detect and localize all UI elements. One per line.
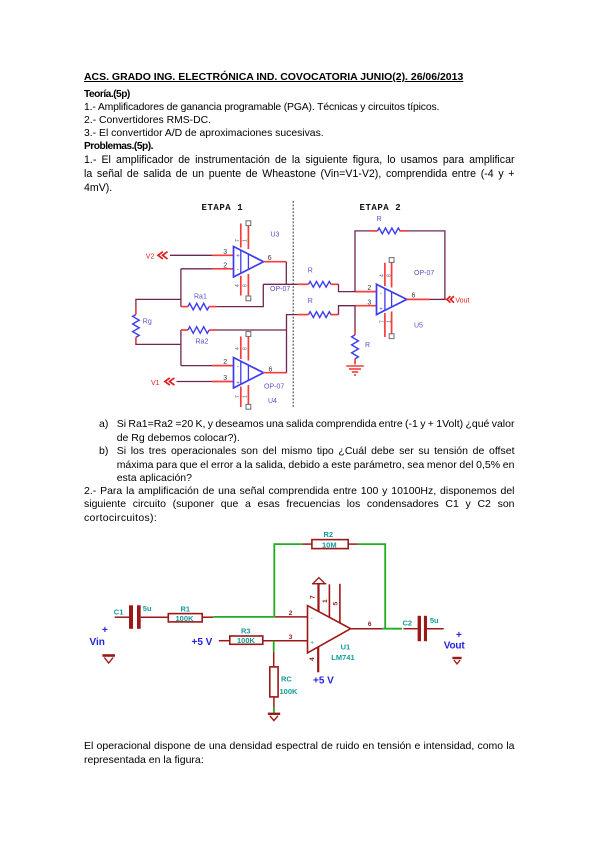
wire U3 output	[264, 261, 287, 263]
svg-text:LM741: LM741	[331, 653, 354, 662]
wire U5 pin3 down to grounded R	[354, 306, 356, 335]
node V2	[146, 252, 168, 261]
label R1	[181, 604, 191, 613]
offset null pin 1 stub U1	[328, 584, 330, 618]
label R stage2 bottom	[308, 298, 313, 305]
svg-text:+5 V: +5 V	[313, 675, 334, 686]
pin 4 label U1	[309, 657, 316, 661]
svg-text:1: 1	[243, 239, 249, 242]
resistor R stage2 top	[309, 281, 339, 287]
resistor RC	[270, 667, 278, 697]
value LM741	[331, 653, 354, 662]
pin 2 label U4	[223, 359, 227, 366]
label Ra1	[194, 293, 207, 300]
label R feedback	[377, 216, 382, 223]
resistor R stage2 bottom	[309, 312, 339, 318]
resistor R grounded	[352, 335, 359, 365]
svg-text:7: 7	[310, 595, 317, 599]
wire node to Rc (green stub)	[273, 641, 275, 652]
wire output green segment	[382, 628, 402, 630]
svg-text:+: +	[310, 639, 314, 646]
node Vout	[447, 296, 469, 305]
svg-text:Rg: Rg	[143, 319, 152, 326]
op-amp U4	[234, 358, 264, 389]
svg-text:3: 3	[223, 249, 227, 256]
svg-text:4: 4	[309, 657, 316, 661]
svg-text:100K: 100K	[237, 636, 256, 645]
wire Rc to ground	[273, 697, 275, 713]
svg-text:1: 1	[386, 320, 392, 323]
wire branch to Rg top	[136, 299, 181, 314]
wire node row to stage2 top R	[263, 283, 308, 285]
svg-text:3: 3	[289, 634, 293, 641]
op-amp U1	[308, 606, 351, 653]
no-connect square top U4	[246, 332, 251, 337]
label R grounded	[365, 342, 370, 349]
value OP-07 of U5	[414, 270, 434, 277]
wire U5 output	[407, 298, 447, 300]
op-amp U3 power pins	[241, 224, 249, 296]
node V1	[151, 378, 174, 387]
resistor R1	[168, 614, 213, 623]
pin 8 label U4	[243, 347, 249, 350]
value OP-07 of U3	[270, 286, 290, 293]
op-amp U4 power pins	[241, 337, 249, 408]
theory heading	[84, 89, 130, 100]
value OP-07 of U4	[264, 384, 284, 391]
pin 1 label U1	[322, 599, 329, 603]
no-connect square top U5	[389, 258, 394, 263]
svg-text:10M: 10M	[322, 540, 337, 549]
value 100K of RC	[280, 687, 299, 696]
wire V1 to U4 pin3	[177, 381, 234, 383]
svg-text:100K: 100K	[176, 614, 195, 623]
pin 4 label U3	[235, 284, 241, 287]
svg-text:OP-07: OP-07	[414, 270, 434, 277]
svg-text:2: 2	[289, 610, 293, 617]
stage separator dashed line	[292, 201, 294, 407]
wire U4 pin2	[181, 365, 234, 367]
wire C2 to Vout	[427, 628, 444, 630]
svg-text:3: 3	[367, 299, 371, 306]
svg-text:+: +	[102, 625, 108, 636]
svg-text:6: 6	[368, 621, 372, 628]
svg-text:Ra1: Ra1	[194, 293, 207, 300]
svg-text:ETAPA 2: ETAPA 2	[360, 203, 402, 213]
svg-text:7: 7	[235, 239, 241, 242]
label C1	[114, 608, 124, 617]
svg-text:C2: C2	[403, 618, 413, 627]
svg-text:OP-07: OP-07	[264, 384, 284, 391]
svg-text:ETAPA 1: ETAPA 1	[202, 203, 244, 213]
svg-text:-: -	[237, 365, 239, 371]
wire Ra2 right to U4 output vertical	[216, 329, 286, 331]
wire V2 to U3 pin3	[170, 254, 234, 256]
svg-text:+: +	[236, 254, 240, 260]
svg-text:U1: U1	[341, 642, 351, 651]
designator U4	[268, 398, 277, 405]
node Vin	[90, 625, 109, 648]
wire to C2	[404, 628, 418, 630]
pin 2 label U1	[289, 610, 293, 617]
svg-text:OP-07: OP-07	[270, 286, 290, 293]
wire vertical Ra2 node	[180, 330, 182, 366]
svg-text:2: 2	[367, 285, 371, 292]
svg-text:U3: U3	[271, 232, 280, 239]
wire C1 to R1	[141, 616, 169, 618]
svg-text:Ra2: Ra2	[196, 338, 209, 345]
svg-text:2: 2	[223, 359, 227, 366]
capacitor C2	[418, 616, 427, 641]
svg-text:3: 3	[223, 375, 227, 382]
pin 7 label U1	[310, 595, 317, 599]
resistor Ra2	[181, 327, 216, 334]
no-connect square pin1 U3	[246, 221, 251, 226]
pin 3 label U1	[289, 634, 293, 641]
label C2	[403, 618, 413, 627]
offset null pin 5 stub U1	[339, 584, 341, 624]
wire Ra1 right lead up	[216, 284, 263, 306]
wire U4 output up to bottom R row	[287, 315, 309, 373]
svg-text:U4: U4	[268, 398, 277, 405]
svg-text:+: +	[379, 307, 383, 313]
wire feedback top left	[274, 544, 302, 616]
wire green stub to Rc	[273, 652, 275, 667]
pin 4 label U4	[235, 347, 241, 350]
no-connect square bottom U4	[246, 404, 251, 409]
wire summing node to U1 pin2	[275, 616, 308, 618]
pin 3 label U5	[367, 299, 371, 306]
svg-text:8: 8	[243, 284, 249, 287]
pin 7 label U4	[235, 395, 241, 398]
ground marker below Vin	[102, 656, 115, 664]
pin 6 label U5	[412, 293, 416, 300]
power arrow symbol V+ of U1	[312, 578, 326, 612]
svg-text:+: +	[456, 630, 462, 641]
value 5u of C1	[143, 604, 152, 613]
wire feedback right vertical to output	[407, 231, 445, 300]
svg-text:7: 7	[379, 320, 385, 323]
svg-text:R2: R2	[324, 530, 334, 539]
label +5 V left	[192, 637, 213, 648]
wire U3 pin2 down to Ra1 node	[180, 269, 182, 307]
wire U3 output down to R row	[285, 262, 287, 285]
pin 1 label U5	[386, 320, 392, 323]
svg-text:5u: 5u	[430, 616, 439, 625]
svg-text:-: -	[311, 615, 313, 622]
svg-text:R: R	[308, 268, 313, 275]
stage label ETAPA 2	[360, 203, 402, 213]
svg-text:Vout: Vout	[444, 641, 466, 652]
label RC	[281, 675, 292, 684]
ground below R	[346, 366, 364, 375]
pin 4 label U5	[379, 274, 385, 277]
svg-text:7: 7	[235, 395, 241, 398]
CIRCUIT 2 SVG placeholder	[85, 528, 480, 725]
label R3	[241, 627, 251, 636]
wire R1 to summing node (green)	[213, 616, 274, 618]
designator U1	[341, 642, 351, 651]
svg-text:100K: 100K	[280, 687, 299, 696]
CIRCUIT 1 SVG placeholder	[125, 196, 480, 418]
svg-text:V2: V2	[146, 253, 155, 260]
svg-text:1: 1	[322, 599, 329, 603]
pin 1 label U4	[243, 395, 249, 398]
wire top R to U5 pin2	[339, 284, 377, 291]
pin 3 label U4	[223, 375, 227, 382]
pin 7 label U5	[379, 320, 385, 323]
designator U3	[271, 232, 280, 239]
svg-text:Vout: Vout	[455, 298, 469, 305]
pin 6 label U3	[268, 255, 272, 262]
item a	[99, 418, 108, 430]
op-amp U5	[377, 284, 407, 314]
label R2	[324, 530, 334, 539]
resistor R2	[302, 540, 358, 550]
svg-text:RC: RC	[281, 675, 292, 684]
label Rg	[143, 319, 152, 326]
resistor R3	[230, 636, 308, 645]
problem 1 paragraph	[84, 154, 515, 166]
svg-text:R: R	[308, 298, 313, 305]
label R stage2 top	[308, 268, 313, 275]
label +5 V bottom	[313, 675, 334, 686]
pin 2 label U5	[367, 285, 371, 292]
no-connect square pin8 U3	[246, 296, 251, 301]
op-amp U3	[234, 247, 264, 278]
svg-text:5: 5	[333, 602, 340, 606]
svg-text:C1: C1	[114, 608, 124, 617]
svg-text:Vin: Vin	[90, 637, 105, 648]
label Ra2	[196, 338, 209, 345]
stage label ETAPA 1	[202, 203, 244, 213]
svg-text:+: +	[236, 380, 240, 386]
item b	[99, 445, 108, 457]
wire bottom R to U5 pin3	[339, 306, 377, 315]
pin 6 label U4	[269, 366, 273, 373]
svg-text:8: 8	[243, 347, 249, 350]
wire U3 pin2 from feedback node	[181, 268, 234, 270]
pin 8 label U5	[386, 274, 392, 277]
svg-text:2: 2	[223, 262, 227, 269]
svg-text:R: R	[377, 216, 382, 223]
svg-text:1: 1	[243, 395, 249, 398]
pin 3 label U3	[223, 249, 227, 256]
wire feedback top right	[358, 544, 385, 628]
wire feedback left vertical	[355, 231, 378, 292]
pin 6 label U1	[368, 621, 372, 628]
capacitor C1	[129, 605, 141, 629]
svg-text:R1: R1	[181, 604, 191, 613]
closing paragraph	[84, 740, 515, 752]
pin 1 label U3	[243, 239, 249, 242]
problem 2 paragraph	[84, 485, 515, 497]
title	[84, 72, 463, 83]
resistor Ra1	[181, 303, 216, 310]
pin 5 label U1	[333, 602, 340, 606]
svg-text:-: -	[380, 291, 382, 297]
value 5u of C2	[430, 616, 439, 625]
resistor R feedback	[378, 228, 408, 234]
svg-text:4: 4	[235, 347, 241, 350]
svg-text:V1: V1	[151, 380, 160, 387]
svg-text:8: 8	[386, 274, 392, 277]
svg-text:4: 4	[235, 284, 241, 287]
pin 2 label U3	[223, 262, 227, 269]
svg-text:-: -	[237, 268, 239, 274]
svg-text:R3: R3	[241, 627, 251, 636]
wire Vin to C1	[115, 616, 129, 618]
op-amp U5 power pins	[385, 263, 392, 337]
pin 7 label U3	[235, 239, 241, 242]
resistor Rg	[133, 315, 140, 343]
pin 8 label U3	[243, 284, 249, 287]
wire +5V to R3	[219, 640, 230, 642]
svg-text:+5 V: +5 V	[192, 637, 213, 648]
svg-text:U5: U5	[414, 322, 423, 329]
wire U1 output	[351, 628, 383, 630]
ground marker below Vout	[452, 658, 461, 664]
svg-text:5u: 5u	[143, 604, 152, 613]
svg-text:R: R	[365, 342, 370, 349]
pin 4 stub U1 bottom	[317, 646, 319, 672]
ground below Rc	[268, 714, 280, 721]
designator U5	[414, 322, 423, 329]
node Vout	[444, 630, 466, 652]
no-connect square bottom U5	[389, 334, 394, 339]
wire Rg bottom to U4 pin2 node	[136, 343, 181, 345]
svg-text:4: 4	[379, 274, 385, 277]
wire U4 output	[264, 372, 287, 374]
